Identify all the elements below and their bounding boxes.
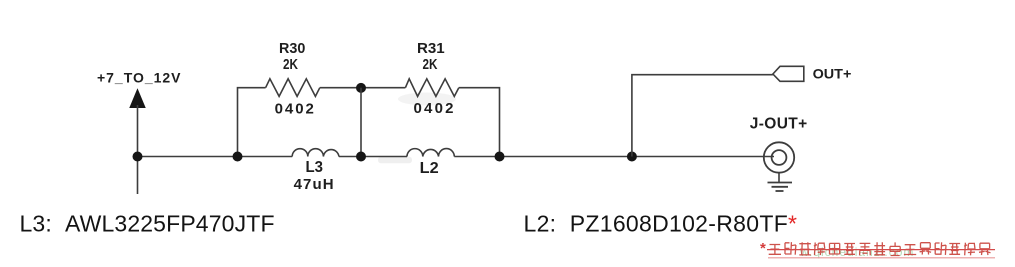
svg-text:2K: 2K: [423, 56, 438, 73]
ground: [768, 183, 793, 192]
svg-text:L3: AWL3225FP470JTF: L3: AWL3225FP470JTF: [20, 211, 275, 237]
svg-text:+7_TO_12V: +7_TO_12V: [97, 69, 181, 85]
node output junction: [627, 152, 637, 162]
svg-text:OUT+: OUT+: [813, 66, 852, 82]
wire main rail left: [138, 156, 293, 158]
red note strikethrough: [767, 249, 995, 251]
svg-text:L3: L3: [306, 159, 324, 176]
node input junction: [133, 152, 143, 162]
connector J-OUT+ jack outer: [764, 142, 794, 172]
wire R31 right riser: [459, 88, 500, 157]
svg-text:J-OUT+: J-OUT+: [750, 116, 808, 133]
wire R30 to R31: [320, 87, 406, 89]
svg-text:R31: R31: [417, 40, 445, 57]
node rail junction D: [495, 152, 505, 162]
svg-text:w.qichedianzi.com: w.qichedianzi.com: [799, 245, 914, 259]
node rail junction B: [233, 152, 243, 162]
svg-text:L2: PZ1608D102-R80TF*: L2: PZ1608D102-R80TF*: [524, 211, 798, 237]
wire output riser: [632, 75, 773, 157]
wire rail right: [454, 156, 774, 158]
red note underline: [768, 257, 995, 259]
node top junction: [356, 83, 366, 93]
port OUT+ tag: [773, 66, 804, 81]
wire input stub: [137, 157, 139, 195]
resistor R30: [266, 79, 320, 97]
connector J-OUT+ jack inner: [772, 150, 787, 165]
resistor R31: [405, 79, 458, 97]
inductor L3: [292, 149, 339, 157]
wire rail between inductors: [339, 156, 407, 158]
power arrow: [130, 90, 145, 108]
svg-text:0402: 0402: [275, 100, 314, 117]
inductor L2: [407, 149, 454, 157]
svg-text:*: *: [760, 240, 766, 257]
wire R30 left riser: [238, 88, 266, 157]
svg-text:2K: 2K: [283, 56, 298, 73]
svg-text:L2: L2: [420, 160, 439, 177]
wire arrow shaft: [137, 105, 139, 157]
wire jack ground stub: [778, 173, 780, 183]
svg-text:R30: R30: [279, 40, 305, 57]
wire center riser: [360, 88, 362, 157]
node rail junction C: [356, 152, 366, 162]
svg-text:47uH: 47uH: [294, 176, 334, 193]
red note pseudo-hanzi: [769, 242, 991, 255]
